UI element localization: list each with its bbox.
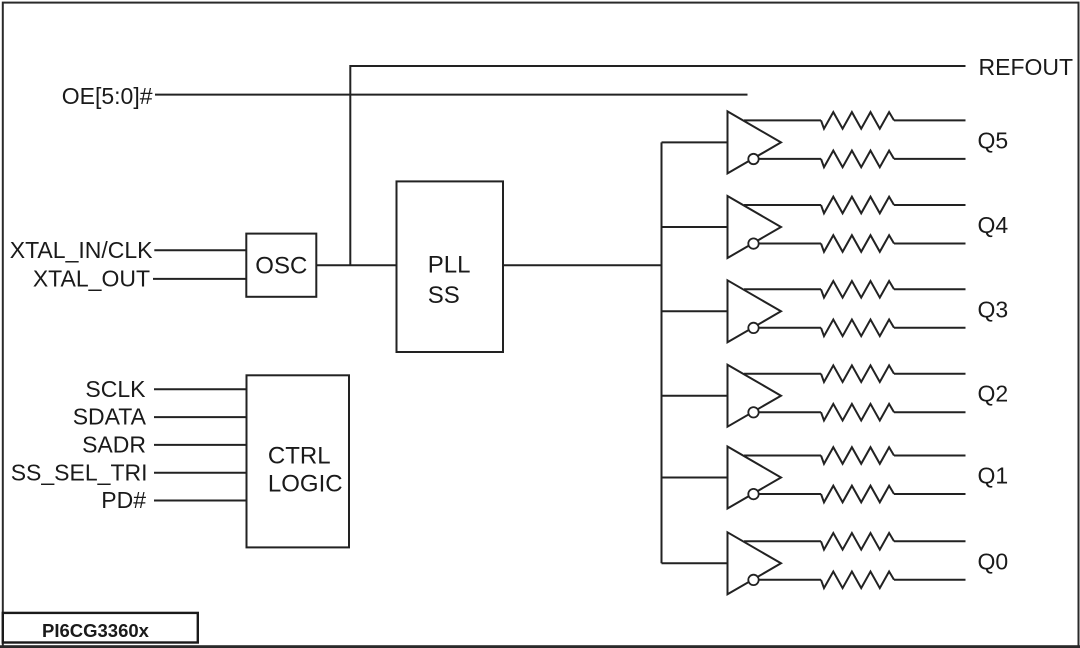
wire Q5 true output <box>744 119 966 121</box>
wire SCLK <box>154 388 247 390</box>
label OE[5:0]# <box>62 83 153 109</box>
wire buffer Q2 input stub <box>662 395 728 397</box>
svg-text:Q0: Q0 <box>978 548 1009 574</box>
resistor R4 (series, Q4 complement) <box>821 235 894 252</box>
wire Q0 true output <box>744 540 966 542</box>
buffer U5 (output buffer Q1) <box>728 447 782 509</box>
resistor R10 (series, Q1 complement) <box>821 486 894 503</box>
svg-text:Q1: Q1 <box>978 463 1009 489</box>
block OSC (oscillator) <box>246 234 316 297</box>
wire Q4 true output <box>744 204 966 206</box>
wire buffer Q3 input stub <box>662 310 728 312</box>
resistor R11 (series, Q0 true) <box>821 533 894 550</box>
wire XTAL_OUT <box>153 278 246 280</box>
wire Q0 complement output <box>759 579 966 581</box>
label Q5 <box>978 127 1009 153</box>
resistor R5 (series, Q3 true) <box>821 281 894 298</box>
label Q1 <box>978 463 1009 489</box>
label REFOUT <box>979 54 1074 80</box>
buffer U4 (output buffer Q2) <box>728 365 782 427</box>
label SCLK <box>85 376 146 402</box>
svg-text:LOGIC: LOGIC <box>268 471 343 498</box>
svg-text:Q4: Q4 <box>978 212 1009 238</box>
inversion bubble on buffer U2 <box>748 238 758 248</box>
svg-text:Q2: Q2 <box>978 381 1009 407</box>
wire Q2 complement output <box>759 411 966 413</box>
label SADR <box>82 432 146 458</box>
svg-text:PI6CG3360x: PI6CG3360x <box>42 620 150 641</box>
wire SS_SEL_TRI <box>154 472 247 474</box>
wire XTAL_IN/CLK <box>154 249 246 251</box>
block PLL SS (PLL with spread spectrum) <box>397 181 504 352</box>
svg-text:PLL: PLL <box>428 252 471 279</box>
label PD# <box>101 487 146 513</box>
wire Q4 complement output <box>759 243 966 245</box>
resistor R6 (series, Q3 complement) <box>821 320 894 337</box>
svg-text:REFOUT: REFOUT <box>979 54 1074 80</box>
label Q3 <box>978 296 1009 322</box>
label XTAL_OUT <box>33 266 150 292</box>
block CTRL LOGIC <box>247 375 350 547</box>
inversion bubble on buffer U4 <box>748 407 758 417</box>
svg-text:SDATA: SDATA <box>73 404 147 430</box>
label SDATA <box>73 404 147 430</box>
part number box PI6CG3360x <box>3 613 198 643</box>
label XTAL_IN/CLK <box>10 237 153 263</box>
svg-text:Q3: Q3 <box>978 296 1009 322</box>
wire Q1 complement output <box>759 493 966 495</box>
svg-text:Q5: Q5 <box>978 127 1009 153</box>
label SS_SEL_TRI <box>11 459 148 485</box>
svg-text:CTRL: CTRL <box>268 442 331 469</box>
resistor R12 (series, Q0 complement) <box>821 572 894 589</box>
wire Q5 complement output <box>759 158 966 160</box>
inversion bubble on buffer U1 <box>748 154 758 164</box>
wire Q3 true output <box>744 288 966 290</box>
wire Q3 complement output <box>759 327 966 329</box>
svg-text:SADR: SADR <box>82 432 146 458</box>
resistor R3 (series, Q4 true) <box>821 197 894 214</box>
inversion bubble on buffer U5 <box>748 489 758 499</box>
buffer U6 (output buffer Q0) <box>728 532 782 594</box>
wire OE[5:0]# <box>155 94 748 96</box>
wire SDATA <box>154 416 247 418</box>
wire REFOUT net (vertical stem from OSC output) <box>350 66 965 265</box>
svg-text:SCLK: SCLK <box>85 376 146 402</box>
svg-text:OE[5:0]#: OE[5:0]# <box>62 83 153 109</box>
wire PD# <box>154 500 247 502</box>
label Q0 <box>978 548 1009 574</box>
wire OSC output to PLL input <box>316 264 396 266</box>
buffer U3 (output buffer Q3) <box>728 280 782 342</box>
inversion bubble on buffer U3 <box>748 323 758 333</box>
svg-text:SS_SEL_TRI: SS_SEL_TRI <box>11 459 148 485</box>
resistor R8 (series, Q2 complement) <box>821 404 894 421</box>
inversion bubble on buffer U6 <box>748 575 758 585</box>
wire SADR <box>154 444 247 446</box>
wire clock distribution bus (vertical) <box>661 142 663 563</box>
wire buffer Q1 input stub <box>662 477 728 479</box>
buffer U2 (output buffer Q4) <box>728 196 782 258</box>
label Q4 <box>978 212 1009 238</box>
wire buffer Q5 input stub <box>662 141 728 143</box>
svg-text:PD#: PD# <box>101 487 146 513</box>
resistor R9 (series, Q1 true) <box>821 447 894 464</box>
svg-text:SS: SS <box>428 282 460 309</box>
buffer U1 (output buffer Q5) <box>728 111 782 173</box>
wire buffer Q0 input stub <box>662 562 728 564</box>
wire buffer Q4 input stub <box>662 226 728 228</box>
svg-text:XTAL_OUT: XTAL_OUT <box>33 266 150 292</box>
resistor R7 (series, Q2 true) <box>821 365 894 382</box>
svg-text:OSC: OSC <box>255 253 307 280</box>
svg-text:XTAL_IN/CLK: XTAL_IN/CLK <box>10 237 153 263</box>
resistor R2 (series, Q5 complement) <box>821 151 894 168</box>
resistor R1 (series, Q5 true) <box>821 112 894 129</box>
wire Q2 true output <box>744 373 966 375</box>
wire PLL output to buffer bus <box>503 264 662 266</box>
wire Q1 true output <box>744 455 966 457</box>
label Q2 <box>978 381 1009 407</box>
